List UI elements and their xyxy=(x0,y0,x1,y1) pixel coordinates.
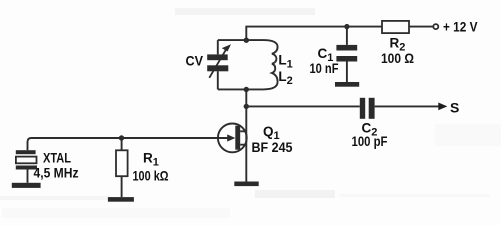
resistor R2 xyxy=(382,21,409,33)
wire: +12V rail xyxy=(246,27,433,41)
capacitor C1 xyxy=(336,27,357,82)
wire: output line xyxy=(246,105,439,107)
svg-text:R1: R1 xyxy=(143,150,159,168)
node gate/R1 junction xyxy=(119,135,124,140)
arrow S output xyxy=(438,103,447,111)
capacitor C2 xyxy=(360,98,375,119)
scan noise bottom left xyxy=(0,196,108,200)
transistor Q1 (JFET BF245) xyxy=(218,123,247,152)
ground R1 xyxy=(108,197,134,202)
capacitor CV (variable) xyxy=(207,44,231,78)
ground Q1 xyxy=(234,182,258,187)
svg-text:10 nF: 10 nF xyxy=(310,61,339,76)
wire: gate line xyxy=(28,138,229,150)
wire: tank left side xyxy=(217,40,219,89)
node drain/output xyxy=(244,104,249,109)
svg-text:L1: L1 xyxy=(278,53,292,71)
terminal +12V xyxy=(433,24,438,29)
inductor L1 L2 xyxy=(246,40,277,89)
ground C1 xyxy=(335,82,359,87)
svg-text:BF 245: BF 245 xyxy=(252,140,293,155)
resistor R1 xyxy=(116,138,128,197)
svg-text:S: S xyxy=(450,99,459,115)
scan noise band top xyxy=(175,8,315,15)
svg-text:CV: CV xyxy=(186,53,204,68)
svg-text:XTAL: XTAL xyxy=(43,151,71,166)
svg-text:100 kΩ: 100 kΩ xyxy=(133,168,169,183)
node tank top xyxy=(244,38,249,43)
node tank bottom xyxy=(244,87,249,92)
scan noise band right xyxy=(435,124,501,146)
svg-text:100 Ω: 100 Ω xyxy=(381,51,414,66)
wire: tank bottom xyxy=(218,88,247,90)
crystal XTAL xyxy=(16,150,37,183)
wire: drain vertical xyxy=(245,89,247,181)
svg-text:L2: L2 xyxy=(278,69,292,87)
wire: tank top xyxy=(218,39,247,41)
svg-text:4,5 MHz: 4,5 MHz xyxy=(34,166,79,181)
svg-text:100 pF: 100 pF xyxy=(352,134,388,149)
svg-text:+ 12 V: + 12 V xyxy=(443,20,478,35)
node: rail to C1 junction xyxy=(344,24,349,29)
ground XTAL xyxy=(12,183,41,188)
